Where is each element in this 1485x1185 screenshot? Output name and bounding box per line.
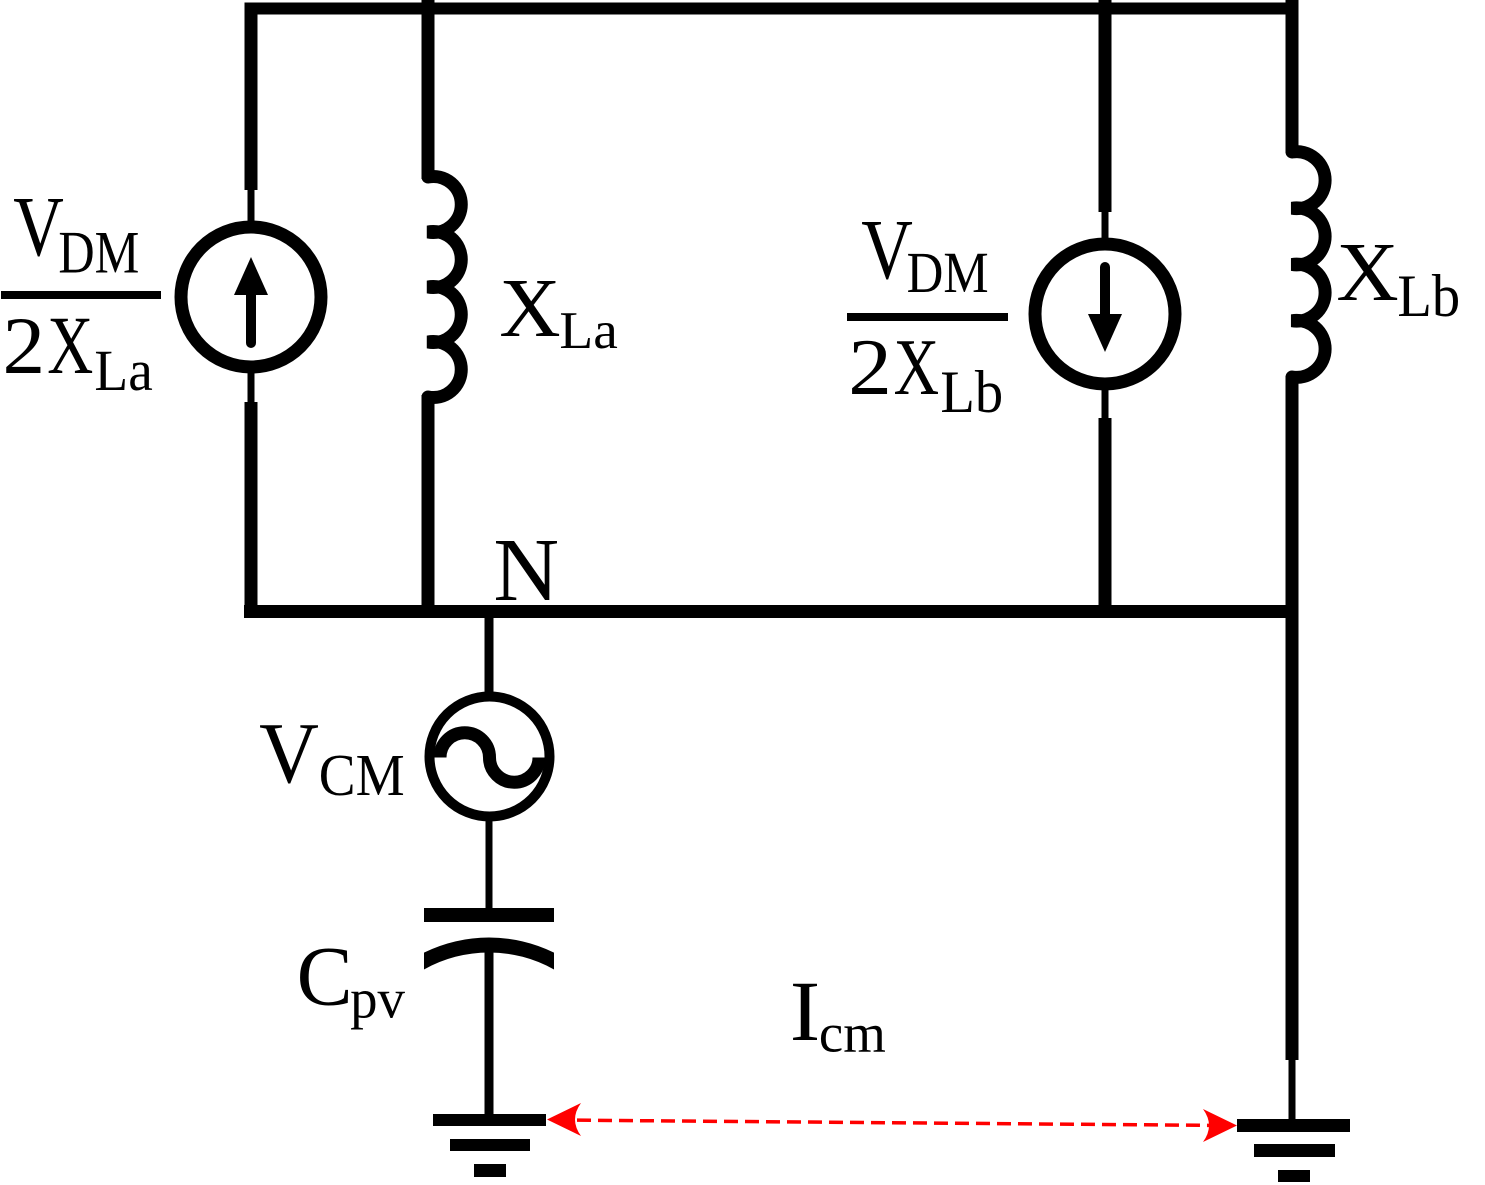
svg-text:V: V <box>259 705 319 801</box>
svg-text:C: C <box>297 930 353 1024</box>
svg-text:DM: DM <box>58 219 139 285</box>
svg-text:X: X <box>47 300 93 392</box>
svg-text:V: V <box>861 203 913 298</box>
svg-text:V: V <box>13 178 64 273</box>
svg-text:2: 2 <box>848 323 892 412</box>
svg-text:I: I <box>790 965 820 1060</box>
svg-text:cm: cm <box>819 1002 886 1063</box>
svg-text:La: La <box>94 339 152 403</box>
svg-text:pv: pv <box>350 968 405 1030</box>
svg-text:N: N <box>493 519 559 619</box>
svg-text:2: 2 <box>3 300 46 391</box>
svg-text:CM: CM <box>319 743 405 808</box>
svg-text:X: X <box>499 262 560 354</box>
svg-text:Lb: Lb <box>1397 262 1460 329</box>
svg-text:Lb: Lb <box>940 358 1003 425</box>
svg-text:La: La <box>559 301 617 360</box>
svg-text:X: X <box>894 321 940 411</box>
svg-text:X: X <box>1336 226 1398 319</box>
svg-text:DM: DM <box>907 240 989 305</box>
